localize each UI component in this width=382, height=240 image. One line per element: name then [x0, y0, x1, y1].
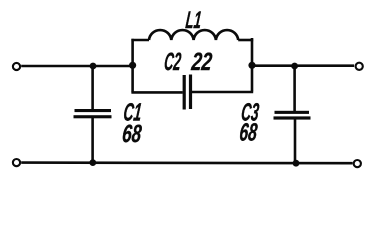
capacitor C2 (left plate) — [183, 75, 186, 110]
node: C3 top junction — [291, 63, 298, 70]
capacitor C1 (bottom plate) — [74, 115, 112, 118]
node: tank left junction — [129, 62, 136, 69]
wire: C3 shunt lead, lower — [294, 118, 297, 163]
terminal: bottom-right output — [354, 160, 361, 167]
terminal: top-right output — [356, 63, 363, 70]
node: C3 bottom junction — [293, 160, 300, 167]
inductor L1 — [149, 30, 238, 40]
wire: C3 shunt lead, upper — [293, 66, 296, 112]
wire: tank left vertical edge — [131, 39, 134, 93]
svg-text:22: 22 — [190, 48, 214, 76]
capacitor C3 (bottom plate) — [274, 116, 311, 119]
svg-text:68: 68 — [238, 118, 258, 146]
wire: tank top branch lead, right — [238, 39, 253, 42]
wire: tank bottom branch, right of C2 — [192, 91, 253, 94]
wire: top rail, left segment — [21, 65, 132, 68]
capacitor C1 (top plate) — [75, 109, 112, 112]
wire: tank bottom branch, left of C2 — [131, 91, 182, 94]
wire: C1 shunt lead, upper — [91, 66, 94, 110]
capacitor C2 (right plate) — [189, 75, 192, 110]
svg-text:68: 68 — [121, 120, 143, 148]
svg-text:C2: C2 — [163, 48, 182, 76]
wire: bottom rail — [21, 161, 352, 164]
terminal: top-left input — [13, 63, 20, 70]
wire: tank top branch lead, left — [131, 39, 149, 42]
node: tank right junction — [248, 62, 255, 69]
wire: C1 shunt lead, lower — [91, 117, 94, 163]
node: C1 bottom junction — [89, 159, 96, 166]
node: C1 top junction — [90, 63, 97, 70]
wire: top rail, right segment — [252, 64, 354, 67]
svg-text:L1: L1 — [184, 7, 202, 34]
terminal: bottom-left input — [13, 159, 20, 166]
capacitor C3 (top plate) — [275, 111, 310, 114]
wire: tank right vertical edge — [251, 38, 254, 91]
